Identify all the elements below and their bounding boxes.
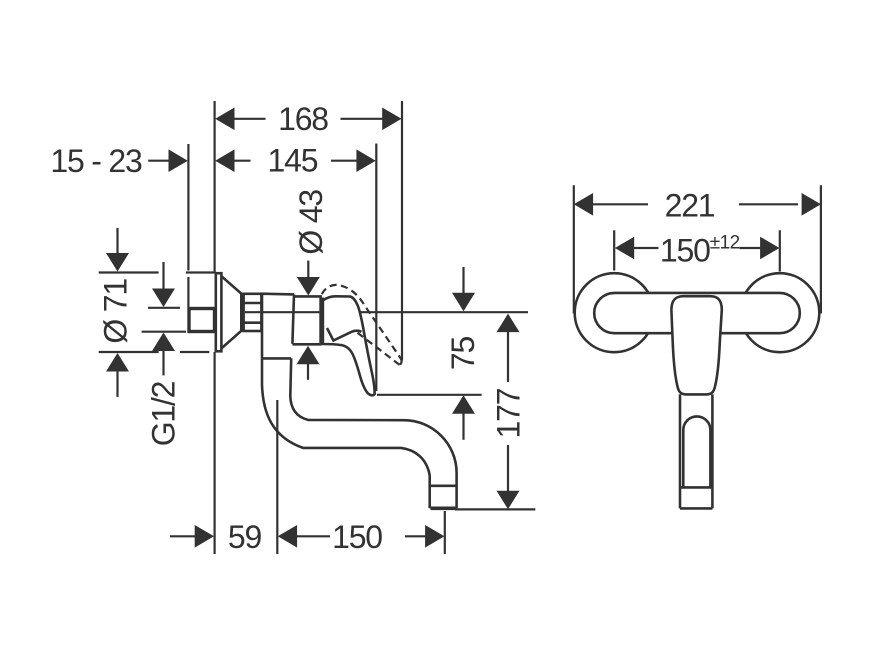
dimension 59 [170, 519, 261, 555]
spout front [680, 394, 712, 508]
svg-text:Ø 71: Ø 71 [98, 279, 134, 344]
dimension 145 [215, 143, 376, 179]
extension line: 150 left [613, 230, 615, 270]
svg-text:168: 168 [278, 101, 328, 137]
dimension G1/2 [142, 262, 186, 446]
faucet side view: square wall fitting [189, 309, 215, 332]
dimension diameter 71 [98, 228, 216, 397]
dimension 177 [455, 314, 535, 510]
extension line: spout outlet centre (150 right) [444, 511, 446, 554]
extension line: spout riser centre (59/150 divider) [276, 400, 278, 554]
hex nut [244, 294, 262, 331]
svg-text:75: 75 [445, 337, 481, 371]
dimension 150 [278, 519, 445, 555]
extension line: 145 right [375, 144, 377, 392]
svg-text:G1/2: G1/2 [146, 381, 182, 446]
extension line: 221 left [573, 185, 575, 313]
svg-text:15 - 23: 15 - 23 [50, 143, 142, 179]
svg-text:150: 150 [332, 519, 382, 555]
left escutcheon circle [575, 273, 654, 352]
dimension 221 [574, 188, 821, 224]
handle (solid, lowered position) [323, 296, 375, 395]
extension line: 150 right [779, 230, 781, 271]
right escutcheon circle [740, 273, 819, 352]
svg-text:177: 177 [491, 388, 527, 438]
svg-text:Ø 43: Ø 43 [293, 190, 329, 255]
extension line: square fitting face (15-23 datum) [187, 144, 189, 271]
dimension diameter 43 [293, 190, 329, 380]
valve body [262, 294, 322, 359]
escutcheon flange plate [216, 273, 222, 351]
extension line: 168 right [401, 101, 403, 361]
extension line: wall plane (left datum) upper [214, 101, 216, 273]
cross bar [594, 293, 800, 333]
handle body front [671, 296, 721, 394]
svg-text:221: 221 [665, 188, 715, 224]
handle joint line [322, 298, 325, 342]
dimension 168 [215, 101, 401, 137]
handle raised position (dashed) [322, 285, 401, 358]
svg-text:150±12: 150±12 [660, 232, 740, 268]
extension line: 221 right [820, 185, 822, 313]
extension line: wall plane lower [214, 352, 216, 554]
svg-text:145: 145 [268, 143, 318, 179]
dimension 75 [377, 267, 482, 440]
dimension 15 - 23 [50, 143, 187, 179]
axis reference line [245, 311, 528, 313]
spout pipe [262, 358, 457, 508]
handle inner edge line [327, 328, 362, 341]
svg-text:59: 59 [228, 519, 262, 555]
escutcheon cone [221, 276, 241, 348]
dimension 150 plus-minus 12 [615, 232, 780, 268]
